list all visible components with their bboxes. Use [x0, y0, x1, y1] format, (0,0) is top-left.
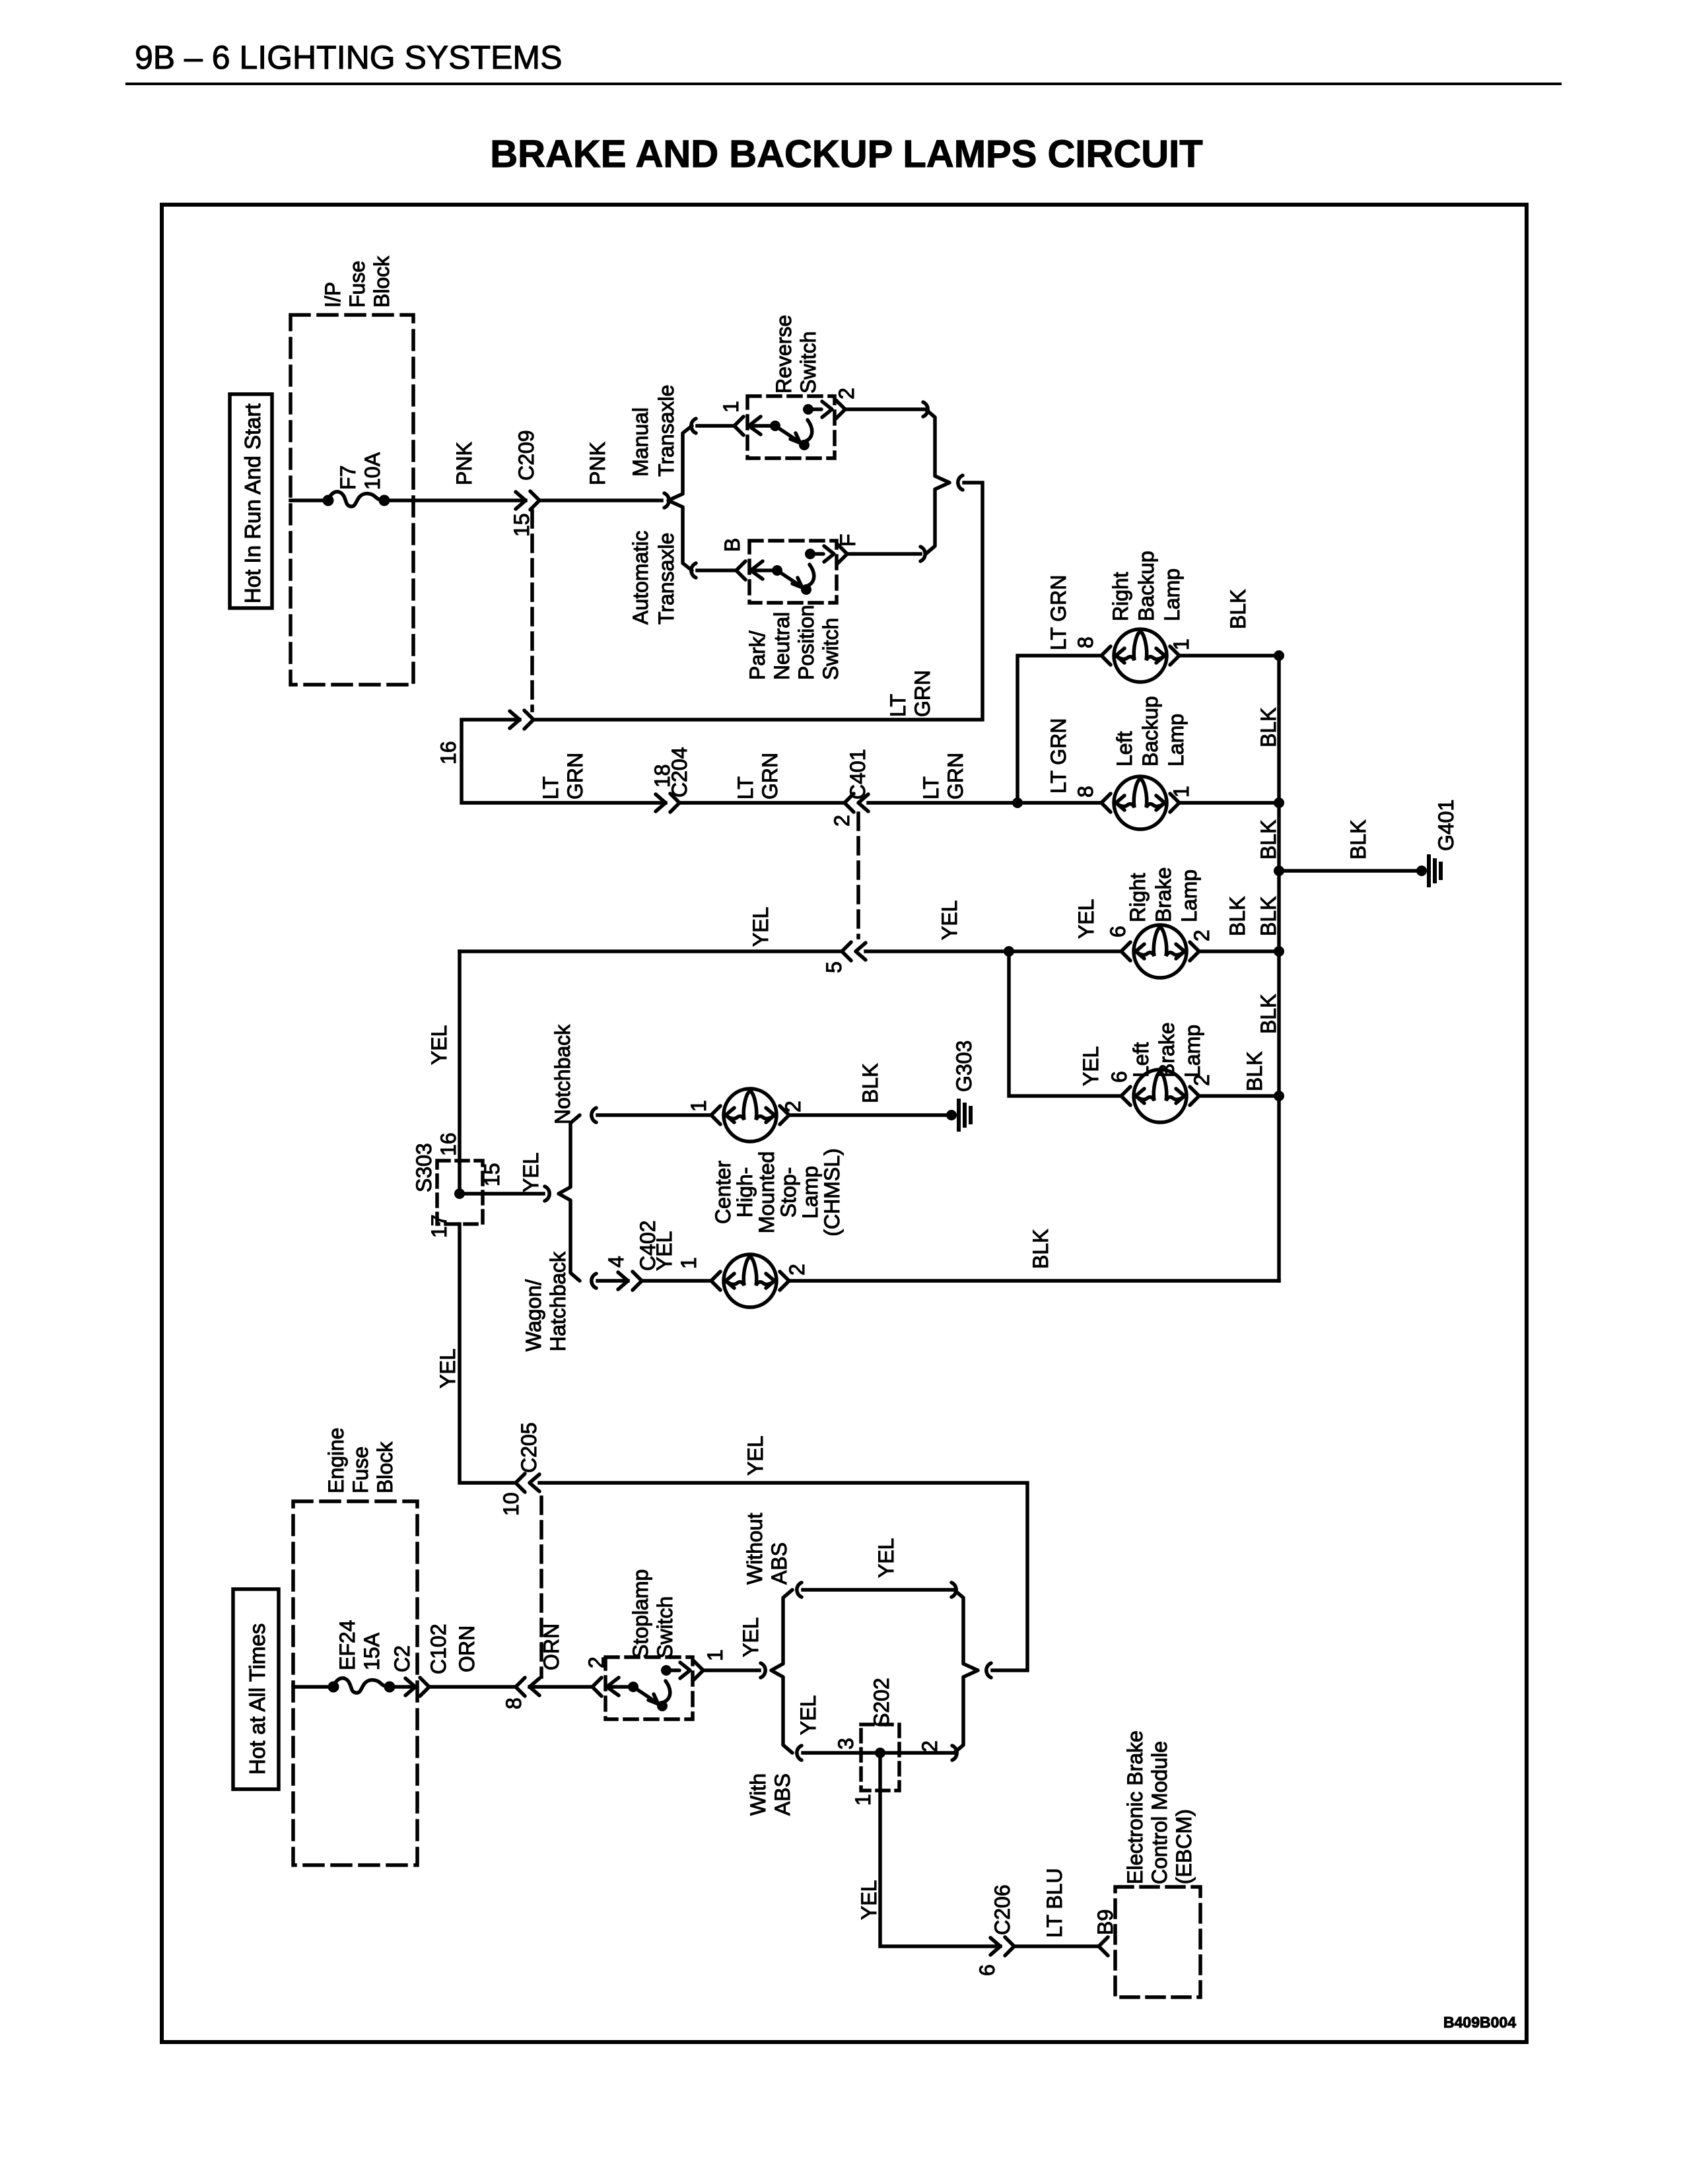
svg-text:Neutral: Neutral: [770, 612, 794, 680]
stoplamp switch: [592, 1657, 703, 1719]
label Reverse Switch: [772, 315, 820, 393]
wire: stoplamp switch pin 1 to ABS split brace: [703, 1668, 759, 1672]
svg-text:BLK: BLK: [1226, 590, 1250, 629]
svg-text:LT: LT: [886, 694, 910, 717]
svg-text:Switch: Switch: [819, 618, 843, 680]
svg-text:G303: G303: [952, 1041, 976, 1092]
svg-text:2: 2: [1190, 930, 1214, 941]
brace: split to Notchback / Wagon-Hatchback: [545, 1108, 596, 1288]
svg-text:Fuse: Fuse: [345, 261, 369, 308]
wire: ABS merge up to C205 row: [539, 1483, 1027, 1670]
label Left Backup Lamp: [1113, 696, 1188, 767]
label Electronic Brake Control Module (EBCM): [1123, 1730, 1196, 1884]
svg-text:15: 15: [480, 1163, 504, 1186]
svg-text:1: 1: [1169, 638, 1193, 650]
junction: bus at right brake: [1274, 946, 1284, 957]
svg-text:Wagon/: Wagon/: [522, 1280, 545, 1351]
wire: C402 to CHMSL wagon lamp: [642, 1279, 711, 1283]
svg-text:LT BLU: LT BLU: [1043, 1868, 1066, 1938]
svg-text:Transaxle: Transaxle: [654, 533, 678, 625]
svg-text:ABS: ABS: [767, 1542, 791, 1585]
svg-text:F: F: [836, 533, 860, 547]
reverse switch: [734, 396, 845, 458]
wire: CHMSL notchback pin 2 to ground G303: [789, 1113, 948, 1117]
svg-text:5: 5: [822, 961, 846, 973]
brace: split Without ABS / With ABS: [761, 1583, 802, 1760]
svg-text:10: 10: [499, 1492, 523, 1516]
svg-text:LT GRN: LT GRN: [1047, 575, 1070, 650]
svg-text:Lamp: Lamp: [1160, 568, 1184, 621]
I/P Fuse Block label: [321, 256, 394, 308]
svg-text:6: 6: [1106, 926, 1130, 938]
svg-text:Park/: Park/: [745, 631, 769, 680]
svg-text:BLK: BLK: [1346, 820, 1370, 860]
wire: S202 pin 1 down to C206: [880, 1753, 1000, 1946]
wire: bus to ground G401: [1279, 869, 1418, 873]
svg-text:YEL: YEL: [652, 1231, 676, 1271]
wire: reverse switch pin 2 to merge brace: [845, 407, 923, 411]
svg-text:1: 1: [703, 1649, 727, 1661]
label Left Brake Lamp: [1129, 1022, 1204, 1077]
svg-text:15: 15: [510, 513, 534, 537]
wire: left brake lamp pin 2 to bus: [1199, 1094, 1279, 1098]
brace: split to Manual / Automatic transaxle: [664, 419, 696, 578]
svg-text:YEL: YEL: [1074, 899, 1098, 939]
svg-text:10A: 10A: [361, 452, 384, 490]
svg-text:LT: LT: [919, 776, 943, 800]
svg-text:GRN: GRN: [563, 753, 587, 800]
wire: branch down to left brake lamp: [1009, 951, 1121, 1096]
ground G303: [946, 1101, 971, 1130]
svg-text:YEL: YEL: [427, 1025, 451, 1065]
svg-text:16: 16: [436, 741, 460, 765]
junction: bus top: [1274, 650, 1284, 661]
wire: BLK ground bus: [1277, 656, 1281, 1281]
label LT GRN: [539, 753, 587, 800]
svg-text:Brake: Brake: [1152, 867, 1175, 922]
svg-text:C401: C401: [846, 749, 870, 800]
connector C401 pin 5: [842, 942, 866, 961]
wire: feed into fuse F7: [291, 498, 328, 502]
connector C205 pin 10: [516, 1474, 539, 1492]
svg-text:EF24: EF24: [335, 1620, 359, 1670]
label LT GRN: [734, 753, 782, 800]
Engine Fuse Block label: [324, 1427, 397, 1493]
label Center High-Mounted Stop-Lamp (CHMSL): [711, 1148, 844, 1236]
svg-text:BLK: BLK: [1243, 1052, 1266, 1091]
svg-text:ORN: ORN: [455, 1625, 479, 1672]
svg-text:2: 2: [781, 1101, 805, 1112]
wire: CHMSL wagon pin 2 to BLK bus: [789, 1279, 1279, 1283]
splice S303: [437, 1161, 483, 1224]
svg-text:LT: LT: [734, 776, 757, 800]
svg-text:Block: Block: [373, 1441, 397, 1493]
connector C402 pin 1: [618, 1272, 642, 1290]
svg-text:GRN: GRN: [944, 753, 967, 800]
wire: C209-15 to transaxle split brace: [539, 498, 662, 502]
svg-text:BLK: BLK: [1257, 708, 1280, 747]
svg-text:BLK: BLK: [1029, 1229, 1052, 1269]
svg-text:Hatchback: Hatchback: [546, 1251, 570, 1351]
svg-text:8: 8: [1074, 636, 1097, 648]
diagram frame: [162, 205, 1527, 2042]
svg-text:2: 2: [1190, 1074, 1214, 1086]
EBCM dashed box: [1115, 1887, 1200, 1997]
label F7 10A: [336, 452, 384, 490]
wire: YEL brake feed C401-5 to right brake lamp: [460, 949, 842, 953]
svg-text:YEL: YEL: [857, 1880, 881, 1920]
connector C209 pin 16: [510, 710, 534, 729]
lamp: CHMSL notchback: [711, 1089, 789, 1142]
dashed connector link C401 2-5: [856, 813, 860, 938]
brace: merge of switch outputs: [920, 402, 963, 561]
label Automatic Transaxle: [629, 531, 678, 625]
wire: branch up to right backup lamp pin 8: [1017, 656, 1101, 803]
svg-text:(EBCM): (EBCM): [1172, 1809, 1196, 1884]
wire: fuse F7 to connector C209 pin 15: [384, 498, 526, 502]
svg-text:YEL: YEL: [519, 1153, 543, 1192]
label Right Backup Lamp: [1109, 551, 1184, 621]
I/P Fuse Block dashed box: [291, 315, 413, 685]
svg-text:S202: S202: [870, 1678, 893, 1727]
svg-text:Lamp: Lamp: [1177, 870, 1201, 922]
svg-text:BLK: BLK: [1257, 820, 1280, 860]
svg-text:1: 1: [851, 1794, 875, 1806]
svg-text:YEL: YEL: [874, 1538, 898, 1578]
wire: C204 to C401: [679, 801, 844, 805]
svg-text:Block: Block: [370, 256, 394, 308]
svg-text:Right: Right: [1126, 873, 1150, 922]
wire: C206 to EBCM pin B9: [1014, 1944, 1099, 1948]
svg-text:S303: S303: [412, 1143, 436, 1192]
brace: merge Without/With ABS: [951, 1583, 991, 1760]
label LT GRN: [919, 753, 967, 800]
svg-text:With: With: [746, 1773, 770, 1816]
lamp: CHMSL wagon/hatchback: [711, 1254, 789, 1307]
svg-text:9B – 6 LIGHTING SYSTEMS: 9B – 6 LIGHTING SYSTEMS: [135, 39, 562, 76]
svg-text:Left: Left: [1129, 1042, 1153, 1077]
svg-text:6: 6: [1107, 1071, 1131, 1083]
svg-text:C206: C206: [990, 1885, 1014, 1936]
svg-text:BRAKE AND BACKUP LAMPS CIRCUIT: BRAKE AND BACKUP LAMPS CIRCUIT: [490, 133, 1202, 176]
svg-text:Engine: Engine: [324, 1427, 348, 1493]
svg-text:Electronic Brake: Electronic Brake: [1123, 1730, 1147, 1884]
svg-text:Stop-: Stop-: [776, 1167, 800, 1217]
svg-text:Mounted: Mounted: [755, 1151, 778, 1234]
wire: right backup lamp pin 1 to BLK bus: [1179, 654, 1279, 658]
dashed connector link C205 to C102: [539, 1497, 543, 1677]
wire: manual transaxle branch to reverse switch pin 1: [697, 424, 734, 428]
wire: feed into fuse EF24: [293, 1685, 333, 1689]
svg-text:Brake: Brake: [1155, 1022, 1179, 1077]
svg-text:G401: G401: [1434, 800, 1458, 851]
svg-text:C102: C102: [427, 1624, 450, 1675]
svg-text:Backup: Backup: [1134, 551, 1158, 621]
svg-text:C209: C209: [514, 430, 538, 481]
header rule: [125, 83, 1562, 85]
svg-text:YEL: YEL: [1079, 1046, 1103, 1086]
svg-text:1: 1: [719, 401, 743, 413]
junction: G401 tap: [1274, 866, 1284, 876]
wire: C2 to C102: [429, 1685, 516, 1689]
label Without ABS: [743, 1513, 791, 1585]
svg-text:Stoplamp: Stoplamp: [629, 1569, 652, 1658]
svg-text:1: 1: [687, 1100, 710, 1112]
dashed connector link C209 15-16: [530, 511, 534, 710]
wire: merge brace to LT GRN return, down to C209 pin 16 row: [536, 483, 982, 720]
svg-text:15A: 15A: [360, 1632, 384, 1670]
park/neutral position switch: [736, 541, 847, 603]
svg-text:Hot In Run And Start: Hot In Run And Start: [240, 403, 265, 603]
svg-text:1: 1: [1169, 786, 1193, 798]
svg-text:Switch: Switch: [796, 331, 820, 393]
svg-text:ABS: ABS: [771, 1773, 794, 1816]
svg-text:Left: Left: [1113, 732, 1136, 767]
label Manual Transaxle: [629, 385, 678, 477]
svg-text:8: 8: [502, 1697, 526, 1709]
svg-text:6: 6: [975, 1964, 999, 1976]
wire: C401-5 to junction: [866, 949, 1121, 953]
svg-text:Backup: Backup: [1138, 696, 1162, 767]
connector C401 pin 2: [844, 794, 868, 812]
junction: brake feed split: [1004, 946, 1014, 957]
junction: bus at left backup: [1274, 798, 1284, 808]
label Wagon/Hatchback: [522, 1251, 570, 1351]
lamp: Left Backup Lamp: [1101, 776, 1179, 829]
svg-text:C205: C205: [517, 1423, 541, 1474]
wire: C209-16 to corner, down and right to C204: [462, 720, 666, 803]
svg-text:2: 2: [830, 815, 854, 827]
svg-text:3: 3: [834, 1738, 858, 1750]
junction: backup lamp feed split: [1012, 798, 1023, 808]
svg-text:BLK: BLK: [1225, 897, 1249, 936]
svg-text:BLK: BLK: [1257, 897, 1280, 936]
svg-text:B409B004: B409B004: [1443, 2014, 1516, 2031]
svg-text:BLK: BLK: [858, 1064, 882, 1103]
connector C209 pin 15: [516, 491, 539, 510]
svg-text:YEL: YEL: [796, 1695, 820, 1735]
label EF24 15A: [335, 1620, 384, 1670]
svg-text:YEL: YEL: [739, 1618, 763, 1657]
svg-text:Lamp: Lamp: [1181, 1025, 1204, 1077]
fuse EF24 15A: [328, 1678, 396, 1693]
svg-text:16: 16: [436, 1132, 460, 1156]
wire: YEL trunk S303-16 up to brake feed row: [458, 951, 462, 1194]
label LT GRN: [886, 670, 934, 717]
svg-text:Notchback: Notchback: [551, 1024, 574, 1124]
svg-text:F7: F7: [336, 465, 360, 490]
svg-text:Transaxle: Transaxle: [654, 385, 678, 477]
junction: bus at left brake: [1274, 1091, 1284, 1101]
svg-text:Control Module: Control Module: [1148, 1741, 1171, 1884]
ground G401: [1416, 856, 1441, 885]
wire: notchback branch to CHMSL lamp: [598, 1113, 711, 1117]
svg-text:Lamp: Lamp: [798, 1166, 822, 1219]
svg-text:PNK: PNK: [452, 442, 476, 485]
svg-text:2: 2: [835, 388, 858, 399]
wire: P/N switch pin F to merge brace: [847, 552, 920, 556]
svg-text:YEL: YEL: [436, 1349, 460, 1388]
label Park/Neutral Position Switch: [745, 605, 843, 680]
svg-text:YEL: YEL: [743, 1436, 767, 1476]
svg-text:ORN: ORN: [539, 1623, 563, 1670]
wire: C401-2 to left backup lamp pin 8: [868, 801, 1101, 805]
label Right Brake Lamp: [1126, 867, 1201, 922]
wire: with ABS branch to S202: [803, 1751, 952, 1755]
svg-text:I/P: I/P: [321, 282, 345, 308]
svg-text:Right: Right: [1109, 572, 1132, 621]
wire: C205 to corner and up YEL trunk to S303 pin 17: [460, 1224, 516, 1483]
svg-text:Manual: Manual: [629, 407, 652, 477]
svg-text:Center: Center: [711, 1161, 735, 1224]
lamp: Left Brake Lamp: [1121, 1070, 1199, 1122]
wire: S303 pin 15 to CHMSL split brace: [460, 1192, 543, 1196]
connector C204 pin 18: [656, 794, 679, 812]
node: Hot at All Times feed label box: [233, 1589, 279, 1789]
label Stoplamp Switch: [629, 1569, 677, 1658]
svg-text:Hot at All Times: Hot at All Times: [245, 1623, 269, 1775]
svg-text:High-: High-: [733, 1167, 757, 1217]
svg-text:Fuse: Fuse: [349, 1447, 372, 1493]
svg-text:8: 8: [1074, 786, 1097, 798]
wire: without ABS branch: [803, 1588, 951, 1592]
wire: fuse EF24 to connector C2: [390, 1685, 415, 1689]
svg-text:LT GRN: LT GRN: [1047, 718, 1070, 794]
svg-text:17: 17: [427, 1214, 451, 1238]
svg-text:LT: LT: [539, 776, 563, 800]
svg-text:GRN: GRN: [758, 753, 782, 800]
svg-text:Automatic: Automatic: [629, 531, 652, 625]
svg-text:(CHMSL): (CHMSL): [820, 1148, 844, 1236]
svg-text:YEL: YEL: [749, 907, 773, 947]
wire: C102-8 to stoplamp switch pin 2: [530, 1685, 592, 1689]
terminal at EBCM: [1099, 1937, 1108, 1956]
connector C102 pin 8: [516, 1678, 539, 1696]
svg-text:2: 2: [918, 1740, 942, 1752]
Engine Fuse Block dashed box: [293, 1501, 417, 1865]
svg-text:Reverse: Reverse: [772, 315, 796, 393]
svg-text:PNK: PNK: [586, 442, 609, 485]
svg-text:4: 4: [604, 1256, 628, 1268]
svg-text:Without: Without: [743, 1513, 767, 1585]
svg-text:GRN: GRN: [911, 670, 934, 717]
lamp: Right Backup Lamp: [1101, 629, 1179, 682]
svg-text:1: 1: [677, 1257, 701, 1269]
svg-text:Lamp: Lamp: [1164, 714, 1188, 767]
wire: automatic transaxle branch to P/N switch pin B: [697, 568, 736, 572]
svg-text:YEL: YEL: [938, 901, 961, 940]
node: Hot In Run And Start feed label box: [230, 394, 272, 608]
wire: wagon/hatchback branch to C402: [598, 1279, 628, 1283]
svg-text:B: B: [720, 538, 744, 552]
lamp: Right Brake Lamp: [1121, 925, 1199, 978]
label With ABS: [746, 1773, 794, 1816]
svg-text:Position: Position: [794, 605, 818, 680]
fuse F7 10A: [323, 492, 390, 506]
wire: right brake lamp pin 2 to bus: [1199, 949, 1279, 953]
svg-text:C204: C204: [668, 747, 691, 798]
splice S202: [861, 1724, 899, 1791]
svg-text:Switch: Switch: [653, 1596, 677, 1658]
connector C206 pin 6: [990, 1937, 1014, 1956]
wire: left backup lamp pin 1 to BLK bus: [1179, 801, 1279, 805]
svg-text:2: 2: [785, 1264, 809, 1276]
svg-text:C2: C2: [390, 1645, 414, 1672]
svg-text:BLK: BLK: [1257, 994, 1280, 1034]
connector C2 at engine fuse block: [405, 1678, 429, 1696]
